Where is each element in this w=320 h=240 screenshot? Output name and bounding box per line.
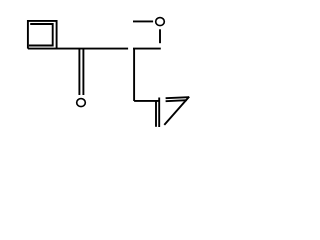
- wire: horizontal chain bond to allene carbon: [134, 100, 160, 102]
- double bond C=C vertical line inner: [155, 101, 157, 127]
- methyl C-O bond of methoxy: [133, 20, 153, 22]
- double bond C=C vertical line outer: [158, 98, 160, 128]
- atom O methoxy oxygen: [156, 18, 165, 26]
- cyclobutadiene ring outer edges: [28, 21, 57, 49]
- carbonyl C=O double bond line 1: [78, 49, 80, 95]
- wire: ring bottom edge continuing as chain bond to carbonyl C: [28, 48, 128, 50]
- wire: vertical chain bond down: [133, 49, 135, 101]
- double bond converging line lower: [166, 100, 187, 101]
- double bond converging line upper: [166, 97, 189, 98]
- bond O-C of methoxy: [159, 29, 161, 43]
- cyclobutadiene ring inner double-bond lines: [29, 24, 53, 46]
- atom O carbonyl oxygen: [77, 99, 86, 107]
- single bond diagonal: [164, 97, 189, 125]
- carbonyl C=O double bond line 2: [82, 49, 84, 95]
- wire: chain segment from OMe carbon: [133, 48, 161, 50]
